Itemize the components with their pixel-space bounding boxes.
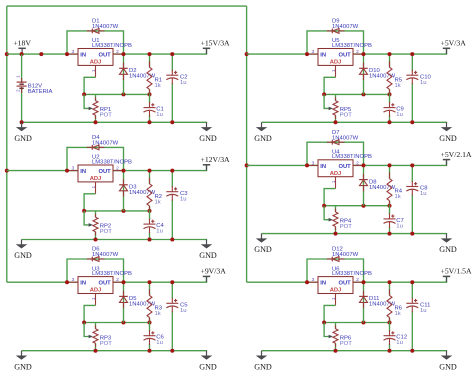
svg-text:2: 2 <box>356 277 359 283</box>
power +5V/2.1A <box>446 160 448 166</box>
junction ADJ-R <box>148 209 152 213</box>
svg-text:GND: GND <box>199 251 217 260</box>
op-amp regulator U2 <box>78 165 113 182</box>
svg-text:+5V/2.1A: +5V/2.1A <box>441 150 472 159</box>
wire ADJ to rail <box>84 305 95 322</box>
junction GND-Clow <box>148 238 152 242</box>
svg-text:1: 1 <box>91 297 97 300</box>
svg-text:1k: 1k <box>155 199 161 205</box>
power +5V/3A <box>446 49 448 55</box>
wire right feed vertical <box>246 6 248 282</box>
svg-text:1k: 1k <box>395 83 401 89</box>
svg-text:1k: 1k <box>395 311 401 317</box>
junction OUT-Dprot <box>362 163 366 167</box>
pin 1 stub ADJ <box>335 65 337 77</box>
pin 2 stub <box>113 53 124 55</box>
junction +18V <box>20 52 24 56</box>
svg-text:1N4007W: 1N4007W <box>92 24 119 30</box>
wire IN feed <box>7 170 78 172</box>
junction IN loop <box>65 169 69 173</box>
svg-text:LM338T/NOPB: LM338T/NOPB <box>92 271 132 277</box>
ground right <box>439 234 457 255</box>
junction ADJ-left <box>82 321 86 325</box>
svg-text:2: 2 <box>16 89 22 92</box>
wiper arrow <box>89 223 93 227</box>
capacitor C8 <box>411 165 413 182</box>
diode D1 <box>87 29 105 34</box>
svg-text:1u: 1u <box>396 112 403 118</box>
svg-text:OUT: OUT <box>98 53 111 59</box>
junction GND-Clow <box>388 349 392 353</box>
svg-text:1u: 1u <box>396 223 403 229</box>
svg-text:1u: 1u <box>156 340 163 346</box>
junction OUT-Dprot <box>122 169 126 173</box>
diode D12 <box>327 257 345 262</box>
svg-text:1u: 1u <box>180 196 187 202</box>
wiper arrow <box>89 335 93 339</box>
svg-text:1N4007W: 1N4007W <box>92 141 119 147</box>
diode D2 <box>123 54 125 94</box>
wiper arrow <box>329 218 333 222</box>
junction IN loop <box>65 280 69 284</box>
wire ADJ to rail <box>84 194 95 211</box>
svg-text:LM338T/NOPB: LM338T/NOPB <box>92 159 132 165</box>
junction GND-Clow <box>388 232 392 236</box>
svg-text:OUT: OUT <box>98 281 111 287</box>
svg-text:GND: GND <box>199 134 217 143</box>
svg-text:1u: 1u <box>420 80 427 86</box>
svg-text:3: 3 <box>312 49 315 55</box>
wire OUT rail <box>113 53 207 55</box>
svg-text:IN: IN <box>80 53 86 59</box>
wiper wire <box>84 211 89 225</box>
wiper arrow <box>89 107 93 111</box>
capacitor C6 <box>149 323 151 332</box>
svg-text:1: 1 <box>331 69 337 72</box>
junction ADJ-Dprot <box>122 92 126 96</box>
junction OUT-C <box>410 163 414 167</box>
svg-text:2: 2 <box>116 49 119 55</box>
pin 3 stub <box>67 170 78 172</box>
svg-text:OUT: OUT <box>338 164 351 170</box>
svg-text:GND: GND <box>14 362 32 371</box>
wire IN feed <box>7 53 78 55</box>
junction feed row1 right <box>245 52 249 56</box>
junction OUT-C <box>170 280 174 284</box>
op-amp regulator U6 <box>318 277 353 294</box>
ground left row2 <box>14 240 32 261</box>
power +12V/3A <box>206 165 208 171</box>
svg-text:GND: GND <box>439 245 457 254</box>
ground right-col row1 left <box>254 122 272 143</box>
svg-text:POT: POT <box>340 341 353 347</box>
wire ADJ rail <box>84 322 149 324</box>
junction ADJ-Dprot <box>122 209 126 213</box>
svg-text:1N4007W: 1N4007W <box>332 135 359 141</box>
junction GND-pot <box>94 349 98 353</box>
junction GND-Clow <box>148 120 152 124</box>
junction OUT-C <box>410 52 414 56</box>
pin 3 stub <box>67 281 78 283</box>
junction feed row2 right <box>245 163 249 167</box>
svg-text:IN: IN <box>80 281 86 287</box>
diode D11 <box>363 282 365 322</box>
svg-text:+9V/3A: +9V/3A <box>201 267 227 276</box>
wire IN feed <box>247 164 318 166</box>
wire top feed <box>7 5 247 7</box>
svg-text:1u: 1u <box>156 229 163 235</box>
junction ADJ-R <box>388 204 392 208</box>
junction feed row1 left <box>5 52 9 56</box>
wire ADJ to rail <box>324 305 335 322</box>
junction OUT-R <box>148 280 152 284</box>
svg-text:1: 1 <box>331 180 337 183</box>
svg-text:POT: POT <box>100 113 113 119</box>
op-amp regulator U4 <box>318 160 353 177</box>
svg-text:POT: POT <box>100 341 113 347</box>
capacitor C11 <box>411 282 413 299</box>
pin 3 stub <box>307 164 318 166</box>
svg-text:GND: GND <box>254 362 272 371</box>
wiper wire <box>84 94 89 108</box>
junction OUT-R <box>148 169 152 173</box>
wiper arrow <box>329 107 333 111</box>
wire GND rail <box>262 121 448 123</box>
junction IN loop <box>65 52 69 56</box>
svg-text:3: 3 <box>72 277 75 283</box>
svg-text:ADJ: ADJ <box>90 176 102 182</box>
pin 2 stub <box>353 281 364 283</box>
pin 1 stub ADJ <box>95 65 97 77</box>
svg-text:1: 1 <box>91 185 97 188</box>
svg-text:1u: 1u <box>420 308 427 314</box>
svg-text:GND: GND <box>254 245 272 254</box>
junction GND-pot <box>94 120 98 124</box>
svg-text:IN: IN <box>320 164 326 170</box>
wire IN feed <box>247 53 318 55</box>
wire GND rail <box>22 239 208 241</box>
svg-text:IN: IN <box>80 169 86 175</box>
svg-text:2: 2 <box>356 160 359 166</box>
junction ADJ-left <box>322 204 326 208</box>
wire D1 bypass loop <box>67 31 124 54</box>
op-amp regulator U3 <box>78 277 113 294</box>
capacitor C3 <box>171 171 173 188</box>
wire OUT rail <box>353 281 447 283</box>
junction OUT-C <box>170 52 174 56</box>
wire IN feed <box>247 281 318 283</box>
resistor R6 <box>389 282 391 295</box>
ground right <box>199 122 217 143</box>
diode D3 <box>123 171 125 211</box>
svg-text:OUT: OUT <box>98 169 111 175</box>
resistor R3 <box>149 282 151 295</box>
pin 1 stub ADJ <box>95 294 97 306</box>
svg-text:3: 3 <box>312 160 315 166</box>
wiper arrow <box>329 335 333 339</box>
pin 2 stub <box>353 53 364 55</box>
svg-text:1N4007W: 1N4007W <box>332 252 359 258</box>
pin 1 stub ADJ <box>95 182 97 194</box>
pin 2 stub <box>113 281 124 283</box>
svg-text:1: 1 <box>16 75 22 78</box>
wire D4 bypass loop <box>67 147 124 170</box>
ground right <box>199 351 217 372</box>
junction IN loop <box>305 163 309 167</box>
svg-text:IN: IN <box>320 281 326 287</box>
wire left feed vertical <box>6 6 8 282</box>
svg-text:2: 2 <box>116 166 119 172</box>
wire GND rail <box>262 233 448 235</box>
capacitor C7 <box>389 206 391 215</box>
svg-text:GND: GND <box>254 134 272 143</box>
svg-text:POT: POT <box>340 224 353 230</box>
capacitor C5 <box>171 282 173 299</box>
svg-text:ADJ: ADJ <box>330 288 342 294</box>
junction GND-Cright <box>410 232 414 236</box>
svg-text:1u: 1u <box>420 191 427 197</box>
svg-text:ADJ: ADJ <box>90 60 102 66</box>
potentiometer RP4 <box>335 206 337 212</box>
wiper wire <box>324 206 329 220</box>
svg-text:LM338T/NOPB: LM338T/NOPB <box>332 154 372 160</box>
svg-text:1k: 1k <box>155 83 161 89</box>
potentiometer RP2 <box>95 211 97 217</box>
junction ADJ-left <box>82 92 86 96</box>
junction GND-pot <box>334 232 338 236</box>
wire ADJ rail <box>324 322 389 324</box>
wire IN feed <box>7 281 78 283</box>
diode D4 <box>87 145 105 150</box>
junction ADJ-R <box>388 321 392 325</box>
ground left row3 <box>14 351 32 372</box>
resistor R5 <box>389 54 391 67</box>
ground right-col row2 left <box>254 234 272 255</box>
wire ADJ rail <box>84 210 149 212</box>
junction GND-pot <box>94 238 98 242</box>
pin 3 stub <box>307 281 318 283</box>
capacitor C4 <box>149 211 151 220</box>
diode D9 <box>327 29 345 34</box>
junction OUT-C <box>170 169 174 173</box>
potentiometer RP5 <box>335 94 337 100</box>
svg-text:LM338T/NOPB: LM338T/NOPB <box>92 43 132 49</box>
junction ADJ-left <box>82 209 86 213</box>
svg-text:OUT: OUT <box>338 53 351 59</box>
wire OUT rail <box>353 164 447 166</box>
diode D10 <box>363 54 365 94</box>
svg-text:OUT: OUT <box>338 281 351 287</box>
svg-text:+12V/3A: +12V/3A <box>201 155 231 164</box>
svg-text:GND: GND <box>439 362 457 371</box>
junction battery GND <box>20 120 24 124</box>
pin 1 stub ADJ <box>335 294 337 306</box>
svg-text:2: 2 <box>356 49 359 55</box>
svg-text:1u: 1u <box>180 308 187 314</box>
junction ADJ-R <box>148 92 152 96</box>
pin 3 stub <box>307 53 318 55</box>
junction ADJ-R <box>148 321 152 325</box>
junction OUT-C <box>410 280 414 284</box>
diode D6 <box>87 257 105 262</box>
pin 2 stub <box>353 164 364 166</box>
svg-text:1k: 1k <box>395 194 401 200</box>
potentiometer RP3 <box>95 323 97 329</box>
pin 2 stub <box>113 170 124 172</box>
svg-text:GND: GND <box>199 362 217 371</box>
wire ADJ rail <box>84 93 149 95</box>
junction ADJ-Dprot <box>122 321 126 325</box>
potentiometer RP1 <box>95 94 97 100</box>
junction ADJ-Dprot <box>362 321 366 325</box>
battery B12V <box>17 54 27 122</box>
power +5V/1.5A <box>446 277 448 283</box>
op-amp regulator U5 <box>318 49 353 66</box>
wiper wire <box>324 323 329 337</box>
svg-text:2: 2 <box>116 277 119 283</box>
svg-text:+5V/3A: +5V/3A <box>441 39 467 48</box>
junction GND-Cright <box>410 349 414 353</box>
junction OUT-R <box>148 52 152 56</box>
svg-text:BATERIA: BATERIA <box>28 89 53 95</box>
svg-text:+18V: +18V <box>13 39 31 48</box>
svg-text:GND: GND <box>14 134 32 143</box>
wire OUT rail <box>113 281 207 283</box>
svg-text:1u: 1u <box>180 80 187 86</box>
ground right-col row3 left <box>254 351 272 372</box>
svg-text:+5V/1.5A: +5V/1.5A <box>441 267 472 276</box>
svg-text:+15V/3A: +15V/3A <box>201 39 231 48</box>
diode D5 <box>123 282 125 322</box>
svg-text:1N4007W: 1N4007W <box>92 252 119 258</box>
svg-text:POT: POT <box>100 229 113 235</box>
svg-text:ADJ: ADJ <box>90 288 102 294</box>
svg-text:LM338T/NOPB: LM338T/NOPB <box>332 43 372 49</box>
power +18V <box>13 39 31 55</box>
wire ADJ to rail <box>324 77 335 94</box>
op-amp regulator U1 <box>78 49 113 66</box>
wire GND rail <box>22 121 208 123</box>
diode D7 <box>327 140 345 145</box>
potentiometer RP6 <box>335 323 337 329</box>
capacitor C1 <box>149 94 151 103</box>
junction feed row2 left <box>5 169 9 173</box>
capacitor C2 <box>171 54 173 71</box>
capacitor C12 <box>389 323 391 332</box>
junction OUT-Dprot <box>362 280 366 284</box>
svg-text:1u: 1u <box>396 340 403 346</box>
svg-text:1: 1 <box>91 69 97 72</box>
svg-text:3: 3 <box>312 277 315 283</box>
resistor R2 <box>149 171 151 184</box>
junction ADJ-left <box>322 321 326 325</box>
wire OUT rail <box>113 170 207 172</box>
wire ADJ to rail <box>324 189 335 206</box>
junction GND-Cright <box>170 238 174 242</box>
svg-text:POT: POT <box>340 113 353 119</box>
wire ADJ to rail <box>84 77 95 94</box>
diode D8 <box>363 165 365 205</box>
junction GND-pot <box>334 349 338 353</box>
svg-text:1u: 1u <box>156 112 163 118</box>
junction ADJ-R <box>388 92 392 96</box>
ground battery <box>14 122 32 143</box>
svg-text:1k: 1k <box>155 311 161 317</box>
junction GND-Cright <box>170 120 174 124</box>
wire D7 bypass loop <box>307 142 364 165</box>
capacitor C10 <box>411 54 413 71</box>
svg-text:ADJ: ADJ <box>330 171 342 177</box>
capacitor C9 <box>389 94 391 103</box>
pin 3 stub <box>67 53 78 55</box>
svg-text:1: 1 <box>331 297 337 300</box>
ground right <box>199 240 217 261</box>
svg-text:GND: GND <box>14 251 32 260</box>
wire OUT rail <box>353 53 447 55</box>
wire D6 bypass loop <box>67 259 124 282</box>
pin 1 stub ADJ <box>335 177 337 189</box>
ground right <box>439 351 457 372</box>
junction GND-Cright <box>170 349 174 353</box>
junction OUT-R <box>388 163 392 167</box>
svg-text:IN: IN <box>320 53 326 59</box>
resistor R4 <box>389 165 391 178</box>
wire D12 bypass loop <box>307 259 364 282</box>
junction OUT-Dprot <box>122 280 126 284</box>
wiper wire <box>84 323 89 337</box>
junction IN loop <box>305 52 309 56</box>
power +15V/3A <box>206 49 208 55</box>
junction node A <box>39 52 43 56</box>
wire GND rail <box>22 350 208 352</box>
junction ADJ-Dprot <box>362 204 366 208</box>
svg-text:LM338T/NOPB: LM338T/NOPB <box>332 271 372 277</box>
wire GND rail <box>262 350 448 352</box>
junction OUT-Dprot <box>122 52 126 56</box>
wiper wire <box>324 94 329 108</box>
junction OUT-R <box>388 280 392 284</box>
svg-text:ADJ: ADJ <box>330 60 342 66</box>
junction GND-pot <box>334 120 338 124</box>
svg-text:1N4007W: 1N4007W <box>332 24 359 30</box>
ground right <box>439 122 457 143</box>
junction GND-Clow <box>148 349 152 353</box>
junction OUT-Dprot <box>362 52 366 56</box>
junction ADJ-Dprot <box>362 92 366 96</box>
junction ADJ-left <box>322 92 326 96</box>
wire D9 bypass loop <box>307 31 364 54</box>
power +9V/3A <box>206 277 208 283</box>
resistor R1 <box>149 54 151 67</box>
junction GND-Cright <box>410 120 414 124</box>
junction GND-Clow <box>388 120 392 124</box>
svg-text:3: 3 <box>72 166 75 172</box>
junction OUT-R <box>388 52 392 56</box>
junction IN loop <box>305 280 309 284</box>
wire ADJ rail <box>324 205 389 207</box>
svg-text:GND: GND <box>439 134 457 143</box>
wire ADJ rail <box>324 93 389 95</box>
svg-text:3: 3 <box>72 49 75 55</box>
